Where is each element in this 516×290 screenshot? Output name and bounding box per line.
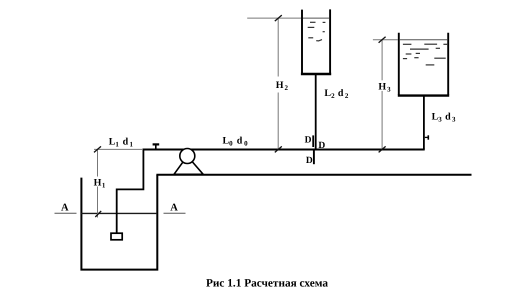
svg-text:D: D <box>306 156 313 166</box>
valve on pipe <box>153 144 160 149</box>
svg-text:D: D <box>305 135 312 145</box>
dimension H1 tick bottom <box>95 211 101 217</box>
section label A left <box>55 202 77 213</box>
dimension H1 extension line <box>94 148 143 150</box>
drain tap on pipe L3 <box>425 135 429 139</box>
main pipe L0 <box>143 149 425 151</box>
tank T3 walls <box>399 33 448 95</box>
dimension H3 tick top <box>379 37 386 43</box>
tank T3 bottom <box>398 94 449 96</box>
platform ground line <box>156 174 471 176</box>
pump casing circle <box>180 149 195 164</box>
tank T2 bottom <box>301 73 331 76</box>
dimension H1 tick top <box>94 146 101 152</box>
svg-text:A: A <box>61 202 69 213</box>
pump base triangle <box>174 156 203 174</box>
dimension H2 tick bottom <box>275 146 282 152</box>
dimension H3 extension line <box>373 39 398 41</box>
svg-text:Рис 1.1 Расчетная схема: Рис 1.1 Расчетная схема <box>206 277 328 289</box>
svg-text:A: A <box>170 202 178 213</box>
dimension H1 line <box>97 149 99 217</box>
tank T2 walls <box>302 9 330 73</box>
pipe L2 <box>315 74 317 150</box>
suction pipe L1 <box>117 150 144 233</box>
dimension H3 tick bottom <box>379 146 386 152</box>
liquid level line tank T3 <box>400 39 448 41</box>
liquid level line tank T2 <box>303 17 329 19</box>
dimension H3 line <box>381 40 383 150</box>
section tick D above pipe <box>312 135 314 147</box>
tank T1 suction reservoir walls <box>81 175 157 270</box>
liquid dashes tank T2 <box>308 22 326 41</box>
section tick D below pipe <box>313 151 315 165</box>
svg-text:D: D <box>318 141 325 151</box>
dimension H2 tick top <box>275 15 282 21</box>
suction strainer foot-valve box <box>111 233 122 240</box>
section label A right <box>164 202 186 213</box>
liquid level line A-A in tank T1 <box>81 212 157 214</box>
liquid dashes tank T3 <box>403 44 447 65</box>
pipe L3 <box>423 96 425 150</box>
dimension H2 extension line <box>247 17 301 19</box>
dimension H2 line <box>277 18 279 149</box>
